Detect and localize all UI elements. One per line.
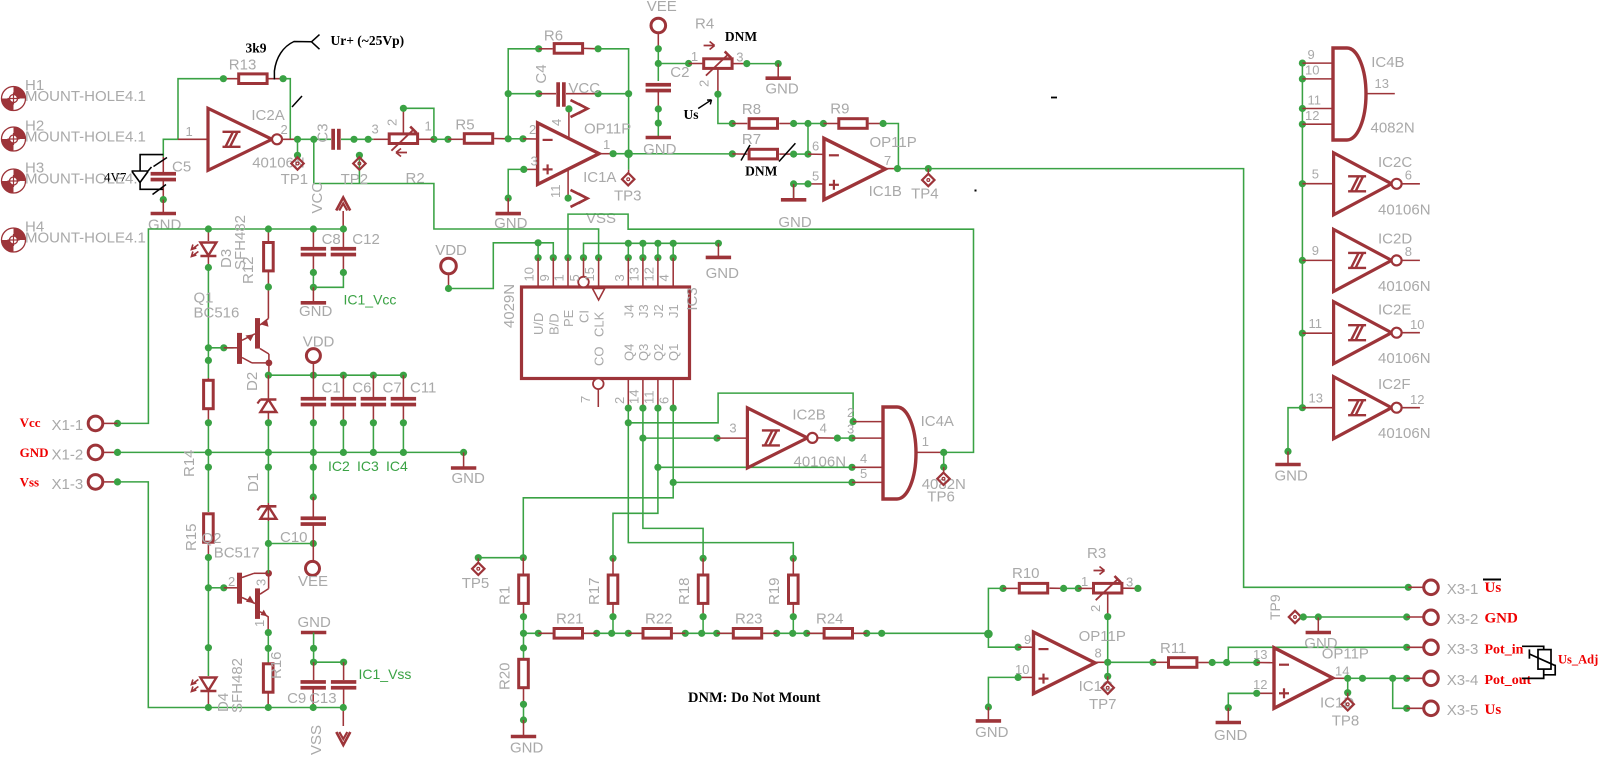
node R12 bottom [265, 283, 272, 290]
svg-text:D2: D2 [244, 372, 261, 391]
svg-text:C12: C12 [352, 231, 380, 248]
svg-text:10: 10 [1410, 317, 1424, 332]
ground IC1C [987, 707, 989, 721]
svg-text:X3-3: X3-3 [1447, 641, 1479, 658]
wire VDD to IC3 pins 10 9 [441, 258, 457, 274]
tiny dash mark [1051, 97, 1057, 99]
node Q2 collector branch to C10 [265, 540, 272, 547]
capacitor C6 [342, 375, 344, 398]
svg-text:R17: R17 [586, 577, 603, 605]
inverter IC2E [1302, 332, 1333, 334]
svg-text:4: 4 [657, 274, 672, 281]
svg-text:IC1_Vss: IC1_Vss [359, 666, 412, 682]
svg-text:J1: J1 [666, 304, 681, 318]
svg-text:R12: R12 [240, 256, 257, 284]
svg-text:VEE: VEE [298, 573, 328, 590]
node X3-1 [1405, 584, 1412, 591]
wire to ground IC2F [1288, 408, 1302, 452]
svg-text:4: 4 [860, 451, 867, 466]
svg-text:5: 5 [567, 274, 582, 281]
svg-text:GND: GND [510, 740, 544, 757]
svg-text:6: 6 [1405, 168, 1412, 183]
svg-text:R22: R22 [645, 611, 673, 628]
svg-text:4V7: 4V7 [104, 170, 127, 185]
svg-text:1: 1 [552, 274, 567, 281]
svg-text:OP11P: OP11P [870, 134, 917, 151]
svg-text:VEE: VEE [647, 0, 677, 15]
svg-text:R18: R18 [676, 577, 693, 605]
svg-text:5: 5 [1312, 167, 1319, 182]
connector X3-1 [1408, 586, 1423, 588]
svg-text:X1-3: X1-3 [52, 476, 84, 493]
capacitor C11 [402, 375, 404, 398]
connector X1-3 [103, 481, 118, 483]
svg-text:40106N: 40106N [1378, 350, 1431, 367]
op-amp IC1D [1274, 648, 1333, 709]
svg-text:3: 3 [729, 421, 736, 436]
svg-text:9: 9 [1024, 632, 1031, 647]
svg-text:2: 2 [847, 405, 854, 420]
svg-text:TP7: TP7 [1089, 696, 1117, 713]
svg-text:R19: R19 [766, 577, 783, 605]
and gate IC4B 4082N [1302, 62, 1333, 64]
test point TP2 [358, 155, 360, 183]
svg-text:VSS: VSS [586, 210, 616, 227]
capacitor C7 [372, 375, 374, 398]
resistor R24 [807, 632, 824, 634]
supply VEE circle top [651, 18, 666, 33]
svg-text:VCC: VCC [309, 182, 326, 214]
ground IC1B [793, 184, 795, 200]
svg-text:R11: R11 [1160, 640, 1186, 657]
wire IC1B pin5 to ground [808, 183, 824, 185]
wire R4 wiper Us node [717, 69, 719, 94]
wire IC2B output to IC4A pin3 [818, 437, 837, 439]
transistor Q2 BC517 [224, 570, 272, 633]
svg-text:R24: R24 [816, 611, 844, 628]
svg-text:IC1B: IC1B [869, 183, 902, 200]
svg-text:SFH482: SFH482 [229, 658, 246, 713]
ic IC3 4029N box [537, 258, 539, 287]
svg-text:TP5: TP5 [462, 575, 490, 592]
svg-text:10: 10 [1305, 63, 1319, 78]
wire IC1A pin3 to ground [524, 168, 538, 170]
svg-text:IC1_Vcc: IC1_Vcc [344, 292, 397, 308]
svg-text:TP3: TP3 [614, 188, 642, 205]
svg-text:R8: R8 [742, 101, 761, 118]
wire pin13 node to X3-3 [1227, 647, 1407, 662]
svg-text:Vss: Vss [20, 475, 40, 490]
svg-text:GND: GND [706, 265, 740, 282]
capacitor C1 [312, 375, 314, 398]
resistor R23 [717, 632, 732, 634]
resistor R6 [539, 48, 553, 50]
svg-text:1: 1 [691, 49, 698, 64]
svg-text:2: 2 [385, 119, 400, 126]
supply VDD circle left [306, 349, 320, 363]
svg-text:13: 13 [1253, 647, 1267, 662]
connector X3-2 [1407, 616, 1424, 618]
connector X3-3 [1407, 646, 1424, 648]
node R15 bottom [205, 554, 212, 561]
mount hole H4 [2, 228, 26, 252]
svg-text:R9: R9 [830, 101, 849, 118]
wire R2 to R5 [419, 138, 434, 140]
wire Vss from X1-3 [118, 482, 344, 708]
svg-text:J2: J2 [651, 304, 666, 318]
svg-text:2: 2 [281, 122, 288, 137]
svg-text:GND: GND [494, 215, 527, 232]
mount hole H3 [2, 169, 26, 193]
wire R6 right to output node [598, 49, 629, 154]
svg-text:X1-1: X1-1 [52, 417, 84, 434]
wire to C10 and VEE [268, 543, 313, 545]
svg-text:Q2: Q2 [651, 344, 666, 361]
wire Vcc rail [118, 229, 344, 423]
wire R15 to Q2 base [207, 558, 209, 588]
svg-text:X3-4: X3-4 [1447, 672, 1479, 689]
svg-text:Us_Adj: Us_Adj [1558, 653, 1598, 667]
svg-text:13: 13 [626, 267, 641, 281]
trimmer R4 DNM [658, 63, 688, 65]
inverter IC2A [178, 138, 208, 140]
inverter IC2D [1302, 259, 1333, 261]
wire GND bus to IC3 J inputs and CI [584, 243, 719, 257]
resistor R1 [520, 554, 527, 561]
external potentiometer Us_Adj black [1522, 646, 1555, 678]
svg-text:B/D: B/D [546, 313, 561, 335]
node C5 bottom [160, 196, 167, 203]
wire R5 to IC1A pin2 and R6/C4 branch [508, 138, 523, 140]
svg-text:C10: C10 [280, 529, 308, 546]
wire R11 to IC1D pin13 [1227, 662, 1257, 664]
svg-text:TP8: TP8 [1332, 713, 1360, 730]
svg-text:4029N: 4029N [501, 284, 518, 328]
svg-text:IC3: IC3 [684, 287, 701, 310]
resistor R9 [823, 123, 837, 125]
svg-text:R4: R4 [695, 16, 714, 33]
inverter IC2B [747, 408, 807, 468]
svg-text:R7: R7 [742, 131, 761, 148]
test point TP3 [628, 154, 630, 170]
node bottom rail junctions [205, 704, 212, 711]
net oscillator to CLK [314, 139, 599, 257]
svg-text:IC4B: IC4B [1371, 54, 1404, 71]
svg-text:C6: C6 [352, 380, 371, 397]
svg-text:PE: PE [561, 309, 576, 327]
svg-text:R1: R1 [497, 586, 514, 605]
svg-text:X3-1: X3-1 [1447, 581, 1479, 598]
node R13 right [280, 75, 287, 82]
svg-text:J3: J3 [636, 304, 651, 318]
wire GND to C13 [314, 661, 344, 663]
resistor R12 [267, 229, 269, 243]
svg-text:40106N: 40106N [1378, 202, 1431, 219]
svg-text:Pot_in: Pot_in [1485, 643, 1524, 658]
svg-text:11: 11 [1309, 316, 1323, 331]
ground below C5 [162, 200, 164, 214]
node R13 left [220, 75, 227, 82]
svg-text:1: 1 [1081, 574, 1088, 589]
svg-text:C2: C2 [670, 64, 689, 81]
trimmer R2 [373, 138, 388, 140]
svg-text:3: 3 [736, 50, 743, 65]
svg-text:VDD: VDD [435, 242, 467, 259]
wire unused gate input column [1301, 63, 1303, 408]
resistor R8 [732, 123, 747, 125]
wire to IC1C pin9 [988, 634, 1018, 647]
resistor R10 [1003, 587, 1018, 589]
wire IC1C output [1095, 661, 1109, 663]
svg-text:11: 11 [641, 391, 656, 405]
ground IC3 bus [717, 243, 719, 257]
test point TP4 [925, 165, 932, 172]
wire GND rail X1-2 [118, 451, 464, 453]
svg-text:15: 15 [582, 267, 597, 281]
wire IC2A input to R13 left [178, 79, 223, 140]
svg-text:Vcc: Vcc [20, 415, 41, 430]
supply arrow VCC pin4 [568, 109, 570, 139]
svg-text:BC517: BC517 [214, 545, 260, 562]
svg-text:4: 4 [820, 421, 827, 436]
supply arrow VSS pin11 [567, 169, 569, 198]
svg-text:C3: C3 [315, 123, 332, 142]
svg-text:9: 9 [1308, 47, 1315, 62]
svg-text:MOUNT-HOLE4.1: MOUNT-HOLE4.1 [25, 230, 146, 247]
svg-text:U/D: U/D [531, 313, 546, 335]
svg-text:Us: Us [1485, 580, 1502, 596]
svg-text:R16: R16 [268, 651, 285, 679]
svg-text:3k9: 3k9 [246, 41, 267, 56]
svg-text:TP2: TP2 [341, 171, 369, 188]
wire Q2 emitter to R16 [265, 629, 272, 636]
resistor R21 [538, 632, 552, 634]
capacitor C5 [163, 139, 178, 157]
wire IC1D pin12 to ground [1228, 692, 1256, 694]
resistor R17 [609, 555, 616, 562]
svg-text:IC2E: IC2E [1378, 302, 1411, 319]
supply symbol VSS bottom [342, 708, 344, 727]
svg-text:12: 12 [641, 267, 656, 281]
resistor R18 [700, 555, 707, 562]
svg-text:R23: R23 [735, 611, 763, 628]
wire IC1D output to X3-4 X3-5 [1333, 677, 1348, 679]
svg-text:X3-5: X3-5 [1447, 702, 1479, 719]
op-amp IC1C [1034, 632, 1096, 694]
test point TP9 [1289, 611, 1301, 623]
svg-text:Us: Us [684, 107, 699, 122]
svg-text:OP11P: OP11P [584, 121, 631, 138]
capacitor C12 [342, 229, 344, 247]
svg-text:R13: R13 [229, 57, 257, 74]
svg-text:TP6: TP6 [927, 489, 955, 506]
svg-text:8: 8 [1095, 646, 1102, 661]
svg-text:Q4: Q4 [621, 344, 636, 361]
svg-text:C8: C8 [322, 231, 341, 248]
wire Q1 to IC4A pin5 and R1 [523, 408, 673, 558]
svg-text:Pot_out: Pot_out [1485, 673, 1532, 688]
svg-text:GND: GND [778, 214, 812, 231]
svg-text:7: 7 [578, 396, 593, 403]
mount hole H2 [2, 127, 26, 151]
pin CLK clock triangle [593, 289, 605, 301]
ground unused gates [1287, 451, 1289, 464]
svg-text:5: 5 [812, 169, 819, 184]
svg-text:IC4: IC4 [386, 458, 408, 474]
test point TP8 [1344, 689, 1351, 696]
capacitor C8 [312, 229, 314, 247]
svg-text:13: 13 [1375, 76, 1389, 91]
svg-text:40106N: 40106N [1378, 425, 1431, 442]
wire R4 pin3 to ground [747, 63, 778, 65]
resistor R15 [205, 464, 212, 471]
svg-text:2: 2 [697, 80, 712, 87]
wire IC1B output long to X3-1 [885, 168, 898, 170]
svg-text:CLK: CLK [592, 311, 607, 337]
node D3 cathode [205, 264, 212, 271]
svg-text:OP11P: OP11P [1079, 628, 1126, 645]
capacitor C13 [343, 662, 345, 680]
zener diode D2 [267, 375, 269, 398]
resistor R11 [1153, 661, 1167, 663]
and gate IC4A 4082N [883, 407, 916, 499]
svg-text:9: 9 [537, 274, 552, 281]
svg-text:40106N: 40106N [1378, 278, 1431, 295]
svg-text:VDD: VDD [303, 334, 335, 351]
svg-text:1: 1 [425, 119, 432, 134]
led D3 SFH482 [207, 229, 209, 241]
svg-text:C1: C1 [322, 380, 341, 397]
svg-text:TP4: TP4 [911, 186, 939, 203]
svg-text:GND: GND [975, 724, 1009, 741]
svg-text:12: 12 [1305, 108, 1319, 123]
wire to X3-2 [1318, 616, 1406, 618]
svg-text:2: 2 [1088, 605, 1103, 612]
svg-text:11: 11 [1308, 93, 1322, 108]
svg-text:GND: GND [765, 81, 799, 98]
zener diode D1 [265, 464, 272, 471]
pin CO bubble and stub [593, 379, 604, 390]
svg-text:3: 3 [612, 274, 627, 281]
svg-text:Q1: Q1 [666, 344, 681, 361]
svg-text:10: 10 [522, 267, 537, 281]
svg-text:Ur+ (~25Vp): Ur+ (~25Vp) [331, 33, 405, 48]
node PE CLK pin tops [564, 254, 571, 261]
svg-text:GND: GND [299, 303, 333, 320]
test point TP7 [1104, 673, 1111, 680]
svg-text:BC516: BC516 [194, 305, 240, 322]
svg-text:40106N: 40106N [794, 454, 847, 471]
svg-text:14: 14 [626, 390, 641, 404]
svg-text:X1-2: X1-2 [52, 447, 84, 464]
svg-text:1: 1 [922, 434, 929, 449]
svg-text:GND: GND [1214, 727, 1248, 744]
svg-text:IC3: IC3 [357, 458, 379, 474]
resistor R16 [263, 664, 273, 692]
svg-text:8: 8 [1405, 244, 1412, 259]
zener 4V7 black parallel to C5 [140, 155, 163, 190]
ground below C2 [646, 136, 671, 140]
svg-text:D1: D1 [245, 473, 262, 492]
ic3 bottom pins Q outputs [627, 379, 629, 408]
svg-text:DNM: DNM [725, 29, 757, 44]
wire IC1C pin10 to ground [1018, 676, 1033, 678]
svg-text:C9: C9 [287, 690, 306, 707]
svg-text:IC1A: IC1A [583, 169, 616, 186]
resistor R5 [448, 138, 463, 140]
svg-text:3: 3 [531, 154, 538, 169]
test point TP5 [475, 554, 482, 561]
svg-text:R2: R2 [406, 170, 425, 187]
wire Q4 to IC4A pin2 and R19 [628, 408, 793, 558]
svg-text:GND: GND [298, 614, 332, 631]
net IC4A output to PE [568, 214, 974, 452]
svg-text:MOUNT-HOLE4.1: MOUNT-HOLE4.1 [25, 88, 146, 105]
svg-text:2: 2 [228, 574, 235, 589]
node Q1 collector to VDD rail [265, 372, 272, 379]
wire R9 to IC1B output [883, 124, 898, 169]
svg-text:DNM: DNM [745, 164, 777, 179]
svg-text:Q3: Q3 [636, 344, 651, 361]
ground at end of GND rail [463, 452, 465, 468]
svg-text:4082N: 4082N [1371, 120, 1415, 137]
svg-text:R6: R6 [544, 28, 563, 45]
svg-text:R20: R20 [497, 662, 514, 690]
node R5 right [505, 135, 512, 142]
svg-text:DNM: Do Not Mount: DNM: Do Not Mount [688, 690, 821, 706]
svg-text:IC2F: IC2F [1378, 376, 1411, 393]
svg-text:1: 1 [603, 137, 610, 152]
supply symbol VCC near TP2 [336, 198, 350, 211]
capacitor C3 [298, 138, 332, 140]
wire row to R10 junction [984, 630, 993, 639]
svg-text:12: 12 [1253, 677, 1267, 692]
svg-text:3: 3 [847, 422, 854, 437]
ground IC1D [1227, 708, 1229, 723]
svg-text:GND: GND [1485, 611, 1519, 627]
test point TP6 [943, 452, 945, 467]
svg-text:VSS: VSS [308, 725, 325, 755]
wire R8 to IC1B pin6 [808, 123, 823, 125]
annotation wire Ur+ [274, 35, 319, 80]
resistor R13 [223, 78, 283, 80]
svg-text:GND: GND [1275, 468, 1309, 485]
inverter IC2F [1302, 407, 1333, 409]
wire C3 to R2 [341, 138, 373, 140]
svg-text:GND: GND [148, 217, 182, 234]
svg-text:J4: J4 [621, 304, 636, 318]
svg-text:R21: R21 [556, 611, 584, 628]
svg-text:R10: R10 [1012, 565, 1040, 582]
supply VEE circle [312, 544, 314, 562]
wire summing row [524, 632, 989, 634]
svg-text:MOUNT-HOLE4.1: MOUNT-HOLE4.1 [25, 129, 146, 146]
resistor R14 [205, 357, 212, 364]
wire IC1A output row [599, 153, 613, 155]
svg-text:5: 5 [860, 466, 867, 481]
resistor R19 [790, 555, 797, 562]
resistor R7 DNM [729, 150, 736, 157]
black slash mark [292, 96, 302, 107]
ground TP9 net [1317, 617, 1319, 633]
ground IC1A pin3 [507, 198, 509, 214]
svg-text:3: 3 [372, 122, 379, 137]
resistor R20 [520, 644, 527, 651]
test point TP1 [297, 139, 299, 155]
wire Q2 to IC4A pin4 and R17 [613, 408, 658, 558]
svg-text:TP9: TP9 [1267, 594, 1283, 620]
svg-text:C11: C11 [410, 380, 436, 397]
